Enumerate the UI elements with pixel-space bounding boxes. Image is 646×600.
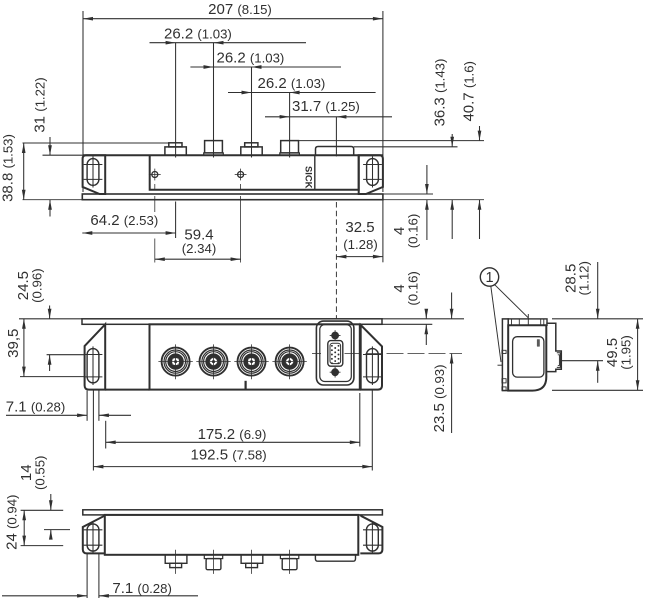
- svg-text:1: 1: [485, 270, 493, 286]
- top view: body divider at SICK panel: [314, 155, 316, 190]
- ref line large connector top to 40.7: [299, 140, 485, 142]
- bottom view: right bracket slot: [367, 524, 379, 551]
- svg-text:32.5: 32.5: [345, 219, 374, 236]
- front view: connector 3 crosshair: [234, 361, 268, 363]
- front view: left bracket: [85, 324, 106, 389]
- extension line slot left edge down: [86, 391, 88, 421]
- svg-text:SICK: SICK: [304, 166, 315, 189]
- svg-text:(2.34): (2.34): [182, 241, 216, 256]
- top view: connector 5 (wide D-sub bump): [316, 147, 354, 156]
- side view: body: [508, 325, 546, 390]
- side view: inner panel: [513, 337, 544, 377]
- front view: D-sub bezel inner: [320, 325, 352, 382]
- top view: screw 2: [238, 172, 244, 178]
- ref line side bottom ext: [552, 389, 643, 391]
- extension line plate right below: [382, 200, 384, 263]
- svg-text:192.5 (7.58): 192.5 (7.58): [191, 447, 267, 464]
- side view: flange tick marks: [511, 319, 513, 325]
- ref line slot top arc ext left (24.5): [47, 354, 85, 356]
- ref line body top to 31: [43, 154, 83, 156]
- ref line plate top right ext: [383, 193, 433, 195]
- svg-text:64.2 (2.53): 64.2 (2.53): [90, 212, 158, 229]
- bottom view: connector bump 2 (large): [204, 555, 222, 559]
- top view: left bracket slot: [87, 159, 99, 186]
- front view: M12 connector 3: [238, 348, 266, 376]
- callout leader to plate strip: [491, 286, 501, 362]
- svg-text:175.2 (6.9): 175.2 (6.9): [198, 426, 267, 443]
- ref line flange bottom right ext: [361, 323, 433, 325]
- front view: M12 connector 4: [276, 348, 304, 376]
- front view: left bracket right edge: [104, 324, 106, 389]
- top view: connector 4 (large, M12): [281, 141, 299, 153]
- dashed center line connector5 / D-sub: [335, 202, 337, 319]
- svg-text:40.7 (1.6): 40.7 (1.6): [460, 61, 477, 122]
- ref line flange top right ext: [382, 318, 464, 320]
- svg-text:26.2 (1.03): 26.2 (1.03): [258, 75, 326, 92]
- extension line bottom slot right edge: [98, 554, 100, 598]
- extension line screw2 center: [240, 196, 242, 263]
- top view: section divider left: [104, 155, 106, 194]
- top view: body outline middle section: [150, 155, 359, 190]
- bottom view: left bracket: [83, 515, 105, 554]
- dim 28.5 (1.12) side: [562, 261, 591, 295]
- top view: body top edge: [83, 154, 383, 156]
- front view: connector 1 crosshair: [158, 361, 192, 363]
- bottom view: connector bump 3 (small): [241, 555, 263, 564]
- svg-text:31 (1.22): 31 (1.22): [31, 77, 48, 132]
- front view: connector 4 crosshair: [272, 361, 306, 363]
- front view: top flange: [82, 319, 382, 325]
- front view: M12 connector 2: [200, 348, 228, 376]
- ref line plate bottom ext left: [21, 509, 64, 511]
- callout circle 1: [480, 268, 498, 286]
- dim 207 extension line left: [82, 11, 84, 192]
- bottom view: connector bump 4 (large): [280, 555, 298, 559]
- svg-text:207 (8.15): 207 (8.15): [208, 1, 272, 18]
- ref line D-sub protrusion center ext: [561, 360, 603, 362]
- side view: strip notch 3: [502, 387, 506, 390]
- svg-text:7.1 (0.28): 7.1 (0.28): [6, 399, 65, 416]
- side view: SICK text small: [537, 339, 540, 346]
- svg-text:(0.16): (0.16): [405, 214, 420, 248]
- front view: D-sub pins: [331, 345, 333, 347]
- dim 4 (0.16) plate thickness top view: [391, 214, 420, 248]
- ref line slot bottom arc ext left: [21, 545, 64, 547]
- ref line side top edge ext: [552, 318, 643, 320]
- extension line connector 5 center: [335, 117, 337, 157]
- bottom view: wide bump (D-sub): [315, 555, 355, 561]
- extension line connector1 center below plate: [175, 202, 177, 239]
- dim 49.5 (1.95) side: [604, 335, 633, 369]
- svg-text:38.8 (1.53): 38.8 (1.53): [0, 134, 17, 202]
- side view: strip notch 1: [502, 350, 506, 353]
- extension line slot right edge down: [98, 391, 100, 421]
- svg-text:(0.16): (0.16): [405, 271, 420, 305]
- front view: connector 2 crosshair: [196, 361, 230, 363]
- top view: connector 1 (small, M8): [165, 147, 186, 155]
- dim 14 (0.55): [18, 456, 47, 490]
- front view: D-sub connector body: [328, 341, 343, 367]
- extension line screw1 center: [154, 196, 156, 212]
- extension line body right edge down: [359, 393, 361, 447]
- extension line connector 2 center: [213, 43, 215, 158]
- dim 4 (0.16) flange thickness front: [391, 271, 420, 305]
- extension line right slot center down: [371, 391, 373, 471]
- front view: right bracket slot: [367, 349, 379, 383]
- svg-text:(0.96): (0.96): [29, 268, 44, 302]
- top view: left mounting bracket: [83, 155, 106, 194]
- ref line slot top arc ext left: [44, 529, 70, 531]
- front view: bottom center notch: [245, 381, 247, 390]
- extension line connector 3 center: [251, 67, 253, 158]
- callout leader to flange top: [494, 284, 528, 318]
- front view: body: [150, 324, 360, 389]
- extension line bracket right edge down: [105, 421, 107, 449]
- svg-text:26.2 (1.03): 26.2 (1.03): [217, 50, 285, 67]
- top view: right mounting bracket: [359, 155, 383, 194]
- ref line flange top ext left: [19, 318, 82, 320]
- ref line slot bottom arc ext left (39.5): [20, 376, 85, 378]
- front view: bottom line between bracket and body: [105, 389, 149, 391]
- front view: D-sub bezel outer: [316, 321, 354, 385]
- svg-text:(1.28): (1.28): [343, 237, 377, 252]
- svg-text:31.7 (1.25): 31.7 (1.25): [292, 98, 360, 115]
- bottom view: connector bump 1 (small): [165, 555, 187, 564]
- svg-text:24 (0.94): 24 (0.94): [3, 495, 20, 550]
- side view: D-sub protrusion inner: [557, 353, 561, 368]
- top view: connector 3 (small, M8): [241, 147, 262, 155]
- extension line connector 1 center: [175, 43, 177, 158]
- extension line connector 4 center: [289, 93, 291, 158]
- top view: screw 2 center dash below: [240, 184, 242, 190]
- side view: flange cap: [508, 319, 547, 325]
- top view: screw 1 center dash below: [154, 184, 156, 190]
- svg-text:(0.55): (0.55): [32, 456, 47, 490]
- bottom view: body: [105, 515, 358, 555]
- front view: left bracket slot: [87, 349, 99, 383]
- top view: mounting plate: [82, 194, 383, 200]
- ref line connector5 top to 36.3: [354, 146, 458, 148]
- dim 207 extension line right: [382, 11, 384, 192]
- svg-text:36.3 (1.43): 36.3 (1.43): [431, 59, 448, 127]
- top view: screw 1: [152, 172, 158, 178]
- side view: mounting plate strip: [502, 319, 508, 391]
- front view: D-sub screw top: [331, 332, 339, 340]
- bottom view: mounting plate: [83, 510, 383, 515]
- dim 24.5 (0.96) left: [15, 268, 44, 302]
- svg-text:(1.12): (1.12): [577, 261, 592, 295]
- top view: connector 2 (large, M12): [205, 141, 223, 153]
- svg-text:26.2 (1.03): 26.2 (1.03): [164, 26, 232, 43]
- front view: right bracket: [361, 325, 382, 390]
- side view: strip notch 2: [502, 379, 506, 383]
- svg-text:7.1 (0.28): 7.1 (0.28): [112, 580, 171, 597]
- ref line plate bottom (common): [23, 199, 485, 201]
- svg-text:(1.95): (1.95): [618, 335, 633, 369]
- top view: right bracket slot: [367, 159, 379, 186]
- bottom view: right bracket: [360, 515, 382, 554]
- svg-text:39,5: 39,5: [5, 329, 22, 358]
- extension line left slot center down: [92, 391, 94, 471]
- extension line bottom slot left edge: [86, 554, 88, 598]
- front view: D-sub horizontal center line: [312, 353, 321, 355]
- side view: right block (D-sub housing): [546, 323, 561, 371]
- ref line small connector cap top (left): [23, 142, 169, 144]
- front view: D-sub screw bottom: [331, 368, 339, 376]
- bottom view: left bracket slot: [87, 524, 99, 551]
- front view: M12 connector 1: [162, 348, 190, 376]
- front view: D-sub pin field: [330, 343, 341, 363]
- svg-text:23.5 (0.93): 23.5 (0.93): [431, 364, 448, 432]
